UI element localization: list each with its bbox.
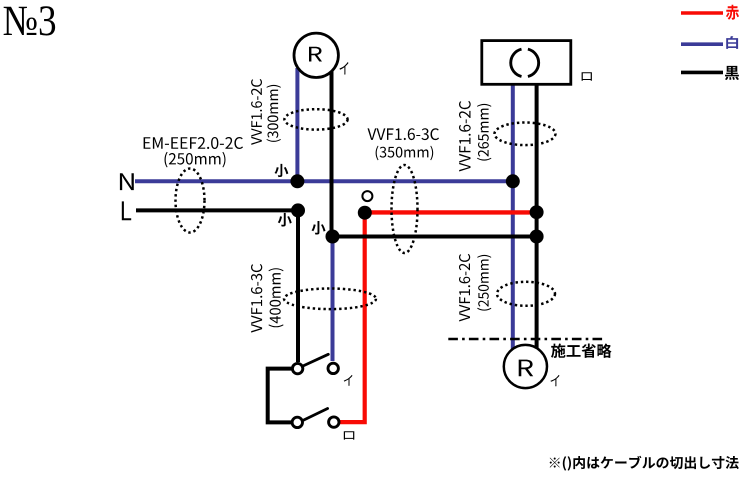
svg-text:№3: №3 — [3, 0, 57, 44]
ceiling rosette symbol right arc — [528, 49, 539, 76]
wire L black horizontal — [136, 208, 298, 212]
junction dot N-node — [290, 174, 304, 188]
cable label (265mm) (rotated) — [477, 104, 491, 161]
connector label sho 1 — [275, 164, 289, 177]
legend label shiro (white) — [726, 36, 738, 49]
ceiling rosette symbol left arc — [511, 49, 522, 76]
junction dot blue right node — [506, 174, 520, 188]
cable label VVF1.6-3C 400 (rotated) — [251, 264, 262, 333]
note: dimensions in parentheses are cable cut lengths — [550, 456, 739, 471]
cable label VVF1.6-2C 250 (rotated) — [459, 254, 470, 322]
junction dot red-black right node — [530, 205, 544, 219]
lamp R bottom circle — [504, 345, 547, 388]
wire red horizontal node to black vertical — [365, 210, 537, 214]
ceiling rosette box — [482, 41, 571, 85]
wire blue vertical ceiling box to lamp R bottom — [511, 84, 515, 350]
cable ellipse 350mm — [392, 165, 418, 253]
lamp R top (receptacle) circle — [294, 33, 338, 77]
label i (katakana) bottom lamp — [551, 375, 560, 386]
wire blue vertical switch-i leg — [331, 237, 335, 362]
construction-omitted boundary line — [448, 338, 604, 341]
junction dot black right node — [530, 230, 544, 244]
wire black U between switches — [268, 369, 292, 423]
lamp R bottom letter — [519, 360, 534, 377]
legend white wire sample — [681, 42, 723, 46]
junction dot red corner node — [358, 206, 372, 220]
wire red vertical down to switch-ro — [340, 212, 365, 422]
wire black vertical L node to switch-i — [296, 210, 300, 362]
wire black vertical lamp R top down — [330, 71, 334, 237]
node label N — [120, 173, 134, 190]
switch ro lever — [303, 409, 327, 421]
cable ellipse 250mm — [497, 282, 555, 306]
cable label VVF1.6-2C 300 (rotated) — [251, 79, 262, 145]
legend label aka (red) — [726, 5, 739, 20]
cable ellipse EM-EEF — [176, 169, 205, 233]
connector label sho 2 — [278, 213, 292, 227]
wire black vertical ceiling box to lamp R bottom — [535, 84, 539, 348]
open circle marker above red node — [362, 191, 372, 201]
cable ellipse 300mm — [284, 109, 347, 129]
label ro (katakana) switch — [344, 431, 355, 439]
label i (katakana) switch — [344, 375, 353, 386]
junction dot L-node — [291, 203, 305, 217]
lamp R top letter — [309, 47, 322, 62]
cable label (250mm) EM — [165, 152, 226, 168]
legend red wire sample — [681, 11, 723, 15]
junction dot black/blue mid node — [326, 230, 340, 244]
switch ro left contact — [292, 417, 302, 427]
wire N blue horizontal — [135, 179, 513, 183]
connector label sho 3 — [312, 221, 326, 235]
cable label (250mm) (rotated) — [477, 255, 491, 311]
cable label (350mm) — [376, 146, 434, 161]
wire black horizontal middle — [333, 235, 537, 239]
cable label (300mm) (rotated) — [267, 85, 281, 142]
cable label (400mm) (rotated) — [269, 268, 284, 327]
label i (katakana) top lamp — [340, 62, 349, 75]
legend black wire sample — [681, 71, 723, 75]
cable label VVF1.6-2C 265 (rotated) — [459, 101, 471, 172]
wire blue vertical lamp R top to N node — [295, 68, 299, 181]
cable ellipse 265mm — [495, 123, 556, 146]
switch i lever — [303, 354, 328, 366]
legend label kuro (black) — [725, 66, 739, 80]
cable label VVF1.6-3C 350 — [368, 128, 440, 140]
cable ellipse 400mm — [284, 289, 376, 310]
label shikou-shouryaku (construction omitted) — [551, 344, 612, 358]
switch ro right contact — [329, 417, 339, 427]
label ro (katakana) ceiling box — [582, 72, 592, 81]
cable label EM-EEF2.0-2C — [144, 137, 243, 149]
switch i right contact — [328, 363, 338, 373]
switch i left contact — [292, 363, 302, 373]
node label L — [122, 201, 131, 220]
